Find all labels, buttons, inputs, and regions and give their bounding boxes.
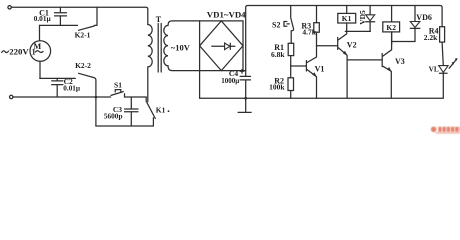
svg-text:VL: VL: [429, 65, 439, 74]
resistor R4: [424, 26, 445, 42]
capacitor C3: [104, 97, 138, 126]
svg-text:VD6: VD6: [416, 13, 432, 22]
svg-text:VD1~VD4: VD1~VD4: [207, 10, 246, 20]
capacitor C1: [34, 7, 67, 25]
wire bottom neutral line: [13, 96, 146, 98]
svg-text:2.2k: 2.2k: [424, 33, 438, 42]
svg-text:T: T: [156, 15, 162, 24]
svg-text:K2: K2: [386, 23, 396, 32]
resistor R3: [301, 6, 319, 46]
svg-text:VD5: VD5: [358, 10, 367, 25]
switch K2-2: [75, 61, 97, 126]
wire top live line: [11, 7, 147, 24]
svg-text:0.01µ: 0.01µ: [63, 84, 81, 92]
bridge rectifier VD1-VD4 outer square: [200, 21, 246, 71]
wire V1 collector to V2 base: [317, 45, 338, 47]
svg-text:220V: 220V: [9, 47, 29, 57]
wire bottom link line: [96, 125, 153, 127]
capacitor C2: [52, 77, 81, 97]
transformer T secondary winding: [164, 21, 200, 71]
switch S2 push button: [272, 6, 294, 44]
watermark: [431, 127, 460, 134]
svg-text:K2-2: K2-2: [75, 61, 91, 70]
LED VL: [429, 58, 458, 98]
switch S1: [111, 81, 125, 97]
relay coil K2: [383, 6, 400, 45]
terminal bottom-left: [10, 95, 13, 98]
wire node under C1: [40, 24, 78, 26]
svg-text:5600p: 5600p: [104, 111, 123, 120]
resistor R2: [269, 66, 293, 98]
svg-text:0.01µ: 0.01µ: [34, 14, 52, 23]
resistor R1: [271, 43, 294, 59]
label ~220V: [2, 51, 9, 53]
svg-text:V3: V3: [395, 57, 405, 66]
bridge diode symbol: [212, 43, 235, 50]
transistor V1: [306, 46, 324, 99]
wire ground bus: [200, 71, 443, 99]
svg-text:6.8k: 6.8k: [271, 50, 285, 59]
diode VD5: [358, 6, 375, 32]
svg-text:S1: S1: [114, 81, 122, 90]
svg-text:S2: S2: [272, 20, 280, 29]
wire K2/VD6 bottom: [392, 41, 415, 43]
wire R4 to LED: [442, 42, 443, 66]
svg-text:K1: K1: [156, 106, 166, 115]
svg-text:K1: K1: [342, 14, 352, 23]
motor M: [30, 25, 51, 78]
transistor V3: [382, 32, 405, 98]
terminal top-left: [8, 6, 11, 9]
transformer T primary winding: [148, 25, 152, 102]
bridge rectifier diamond: [200, 21, 243, 71]
wire K1/VD5 bottom: [345, 30, 370, 32]
svg-text:1000µ: 1000µ: [221, 77, 239, 85]
svg-text:V2: V2: [347, 40, 357, 49]
svg-text:4.7k: 4.7k: [302, 28, 316, 37]
wire V2 emitter to V3 base: [347, 59, 382, 61]
wire R1 to V1 base: [291, 56, 307, 66]
diode VD6: [410, 6, 432, 42]
switch K2-1: [75, 7, 97, 39]
svg-text:100k: 100k: [269, 83, 285, 92]
switch K1 relay contact: [146, 97, 169, 126]
relay coil K1: [338, 6, 356, 32]
wire node above C2: [40, 77, 76, 79]
svg-text:K2-1: K2-1: [75, 30, 91, 39]
ground: [238, 98, 251, 112]
wire positive rail: [246, 6, 442, 77]
svg-text:V1: V1: [315, 65, 325, 74]
transformer core: [158, 24, 161, 73]
transistor V2: [338, 31, 357, 98]
svg-text:~10V: ~10V: [171, 43, 191, 53]
capacitor C4 electrolytic: [221, 69, 250, 100]
